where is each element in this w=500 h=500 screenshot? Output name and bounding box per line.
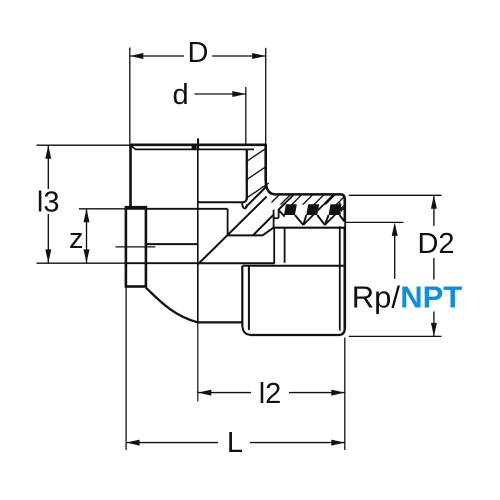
right socket top edge bbox=[243, 265, 345, 267]
z top arrow bbox=[84, 209, 90, 223]
D dimension line right bbox=[212, 55, 266, 57]
svg-text:L: L bbox=[227, 427, 243, 459]
hatching socket wall (cut material) bbox=[238, 123, 276, 222]
right socket ring outer edge bbox=[241, 266, 243, 326]
end chamfer line bbox=[339, 203, 341, 331]
thread leader arrow bbox=[392, 222, 398, 236]
thread helix diagonal 1 bbox=[303, 194, 334, 225]
L dimension line right bbox=[250, 442, 345, 444]
top face of socket bbox=[131, 144, 266, 147]
first thread flank diagonal upper bbox=[279, 203, 286, 210]
thread recess left wall bbox=[273, 228, 275, 263]
d dimension line bbox=[195, 93, 246, 95]
thread root line bbox=[273, 227, 344, 229]
svg-text:Rp/: Rp/ bbox=[352, 280, 401, 315]
cone diagonal D1 bbox=[198, 197, 266, 264]
collar centerline tick bbox=[116, 246, 156, 248]
elbow bend outer curve and bottom line bbox=[146, 288, 242, 323]
L left extension line bbox=[125, 288, 127, 451]
l3 top arrow bbox=[45, 145, 51, 159]
hatching under thread top line bbox=[239, 180, 372, 235]
d extension line bbox=[245, 87, 247, 144]
face chamfer line bbox=[131, 146, 254, 150]
D left arrow bbox=[130, 53, 144, 59]
l3 top extension line bbox=[37, 144, 130, 146]
svg-text:l2: l2 bbox=[259, 378, 282, 410]
wedge bottom diagonal bbox=[262, 228, 273, 236]
svg-text:d: d bbox=[173, 79, 189, 111]
vertical centerline edge bbox=[197, 138, 199, 322]
thread flank bbox=[325, 215, 329, 225]
thread helix diagonal 2 bbox=[325, 204, 346, 225]
thread flank bbox=[279, 210, 285, 217]
channel top edge bbox=[126, 208, 228, 210]
svg-text:l3: l3 bbox=[37, 187, 60, 219]
D2 dimension line upper bbox=[433, 195, 435, 226]
thread tooth cap 2 bbox=[306, 204, 319, 215]
D right arrow bbox=[252, 53, 266, 59]
svg-text:z: z bbox=[69, 223, 84, 255]
socket outer right wall bbox=[264, 144, 267, 181]
centerline tick above face bbox=[197, 138, 199, 148]
undercut groove at floor corner bbox=[242, 202, 247, 208]
l3 dimension line lower bbox=[47, 214, 49, 263]
svg-text:NPT: NPT bbox=[400, 280, 462, 315]
z dimension line bbox=[86, 209, 88, 263]
horizontal edge continuation bbox=[127, 262, 198, 264]
z top extension line bbox=[79, 208, 126, 210]
z bottom arrow bbox=[84, 249, 90, 263]
right extension line for l2 and L bbox=[344, 338, 346, 451]
socket outer left wall bbox=[129, 144, 132, 208]
thread tooth cap 3 bbox=[329, 204, 342, 215]
l2 left arrow bbox=[198, 390, 212, 396]
thread leader vertical bbox=[394, 227, 396, 280]
end face bbox=[343, 199, 346, 329]
l2 right arrow bbox=[331, 390, 345, 396]
horizontal cut edge bbox=[198, 262, 275, 264]
D2 top extension line bbox=[349, 194, 442, 196]
horizontal extension line l3/z bbox=[37, 262, 128, 264]
socket floor with fillet bbox=[198, 198, 247, 203]
branch intersection edge bbox=[146, 243, 198, 245]
socket bore wall (section) bbox=[246, 149, 248, 199]
D2 dimension line middle bbox=[433, 258, 435, 280]
wedge bottom edge bbox=[227, 234, 262, 236]
D2 bottom extension line bbox=[349, 335, 442, 337]
D dimension line left bbox=[130, 55, 184, 57]
thread leader reference line bbox=[346, 221, 404, 223]
L left arrow bbox=[126, 440, 140, 446]
right socket ring inner edge bbox=[248, 266, 250, 330]
thread tooth cap 1 bbox=[284, 204, 297, 215]
d arrow bbox=[232, 91, 246, 97]
outer fillet and right branch top line bbox=[266, 180, 345, 200]
L right arrow bbox=[331, 440, 345, 446]
l2 dimension line right bbox=[289, 392, 345, 394]
D2 dimension line lower bbox=[433, 312, 435, 337]
thread flank bbox=[303, 215, 306, 225]
thread recess right wall bbox=[284, 228, 286, 263]
thread helix diagonal 3 bbox=[286, 195, 294, 203]
L dimension line left bbox=[126, 442, 218, 444]
D2 top arrow bbox=[431, 195, 437, 209]
l3 dimension line upper bbox=[47, 145, 49, 189]
l2 dimension line left bbox=[198, 392, 251, 394]
cone diagonal D2 bbox=[245, 187, 266, 208]
right socket bottom with corner bbox=[250, 328, 345, 335]
svg-text:D: D bbox=[188, 37, 209, 69]
thread flank bbox=[317, 215, 325, 225]
first thread flank diagonal lower bbox=[253, 215, 274, 236]
D2 bottom arrow bbox=[431, 323, 437, 337]
channel step vertical bbox=[227, 209, 229, 235]
D right extension line bbox=[265, 48, 267, 144]
thread flank bbox=[295, 215, 303, 225]
thread groove whites bbox=[284, 215, 344, 227]
centerline extension to l2 bbox=[197, 322, 199, 401]
l3 bottom arrow bbox=[45, 249, 51, 263]
D left extension line bbox=[129, 48, 131, 144]
svg-text:D2: D2 bbox=[417, 228, 454, 260]
thread start notch bbox=[274, 210, 278, 227]
thread flank bbox=[340, 215, 345, 222]
ring bottom corner bbox=[242, 324, 250, 335]
